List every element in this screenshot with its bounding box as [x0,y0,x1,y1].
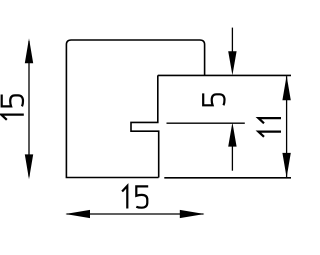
arrowhead left bottom dim [65,210,90,218]
arrowhead up 11 dim [282,76,290,101]
text 15 left rotated [1,95,24,120]
text 5 rotated [203,93,224,105]
profile rabbet step and notch [131,75,159,177]
text 11 rotated [258,118,281,137]
profile flange top edge [158,74,291,76]
extension line for 5 [167,122,245,124]
profile flange bottom edge [164,177,291,179]
arrowhead up 5 dim [228,122,236,146]
text 15 bottom [122,186,148,209]
arrowhead down left dim [25,154,33,179]
arrowhead up left dim [25,38,33,63]
dimension 5 upper segment [231,28,233,55]
arrowhead down 5 dim [228,51,236,75]
profile left block outline [66,40,204,178]
dimension line 11 right [286,76,288,177]
dimension line 15 vertical left [28,41,30,177]
arrowhead down 11 dim [282,153,290,178]
dimension 5 lower segment [231,145,233,171]
dimension line 15 bottom [67,213,204,215]
arrowhead right bottom dim [180,210,205,218]
